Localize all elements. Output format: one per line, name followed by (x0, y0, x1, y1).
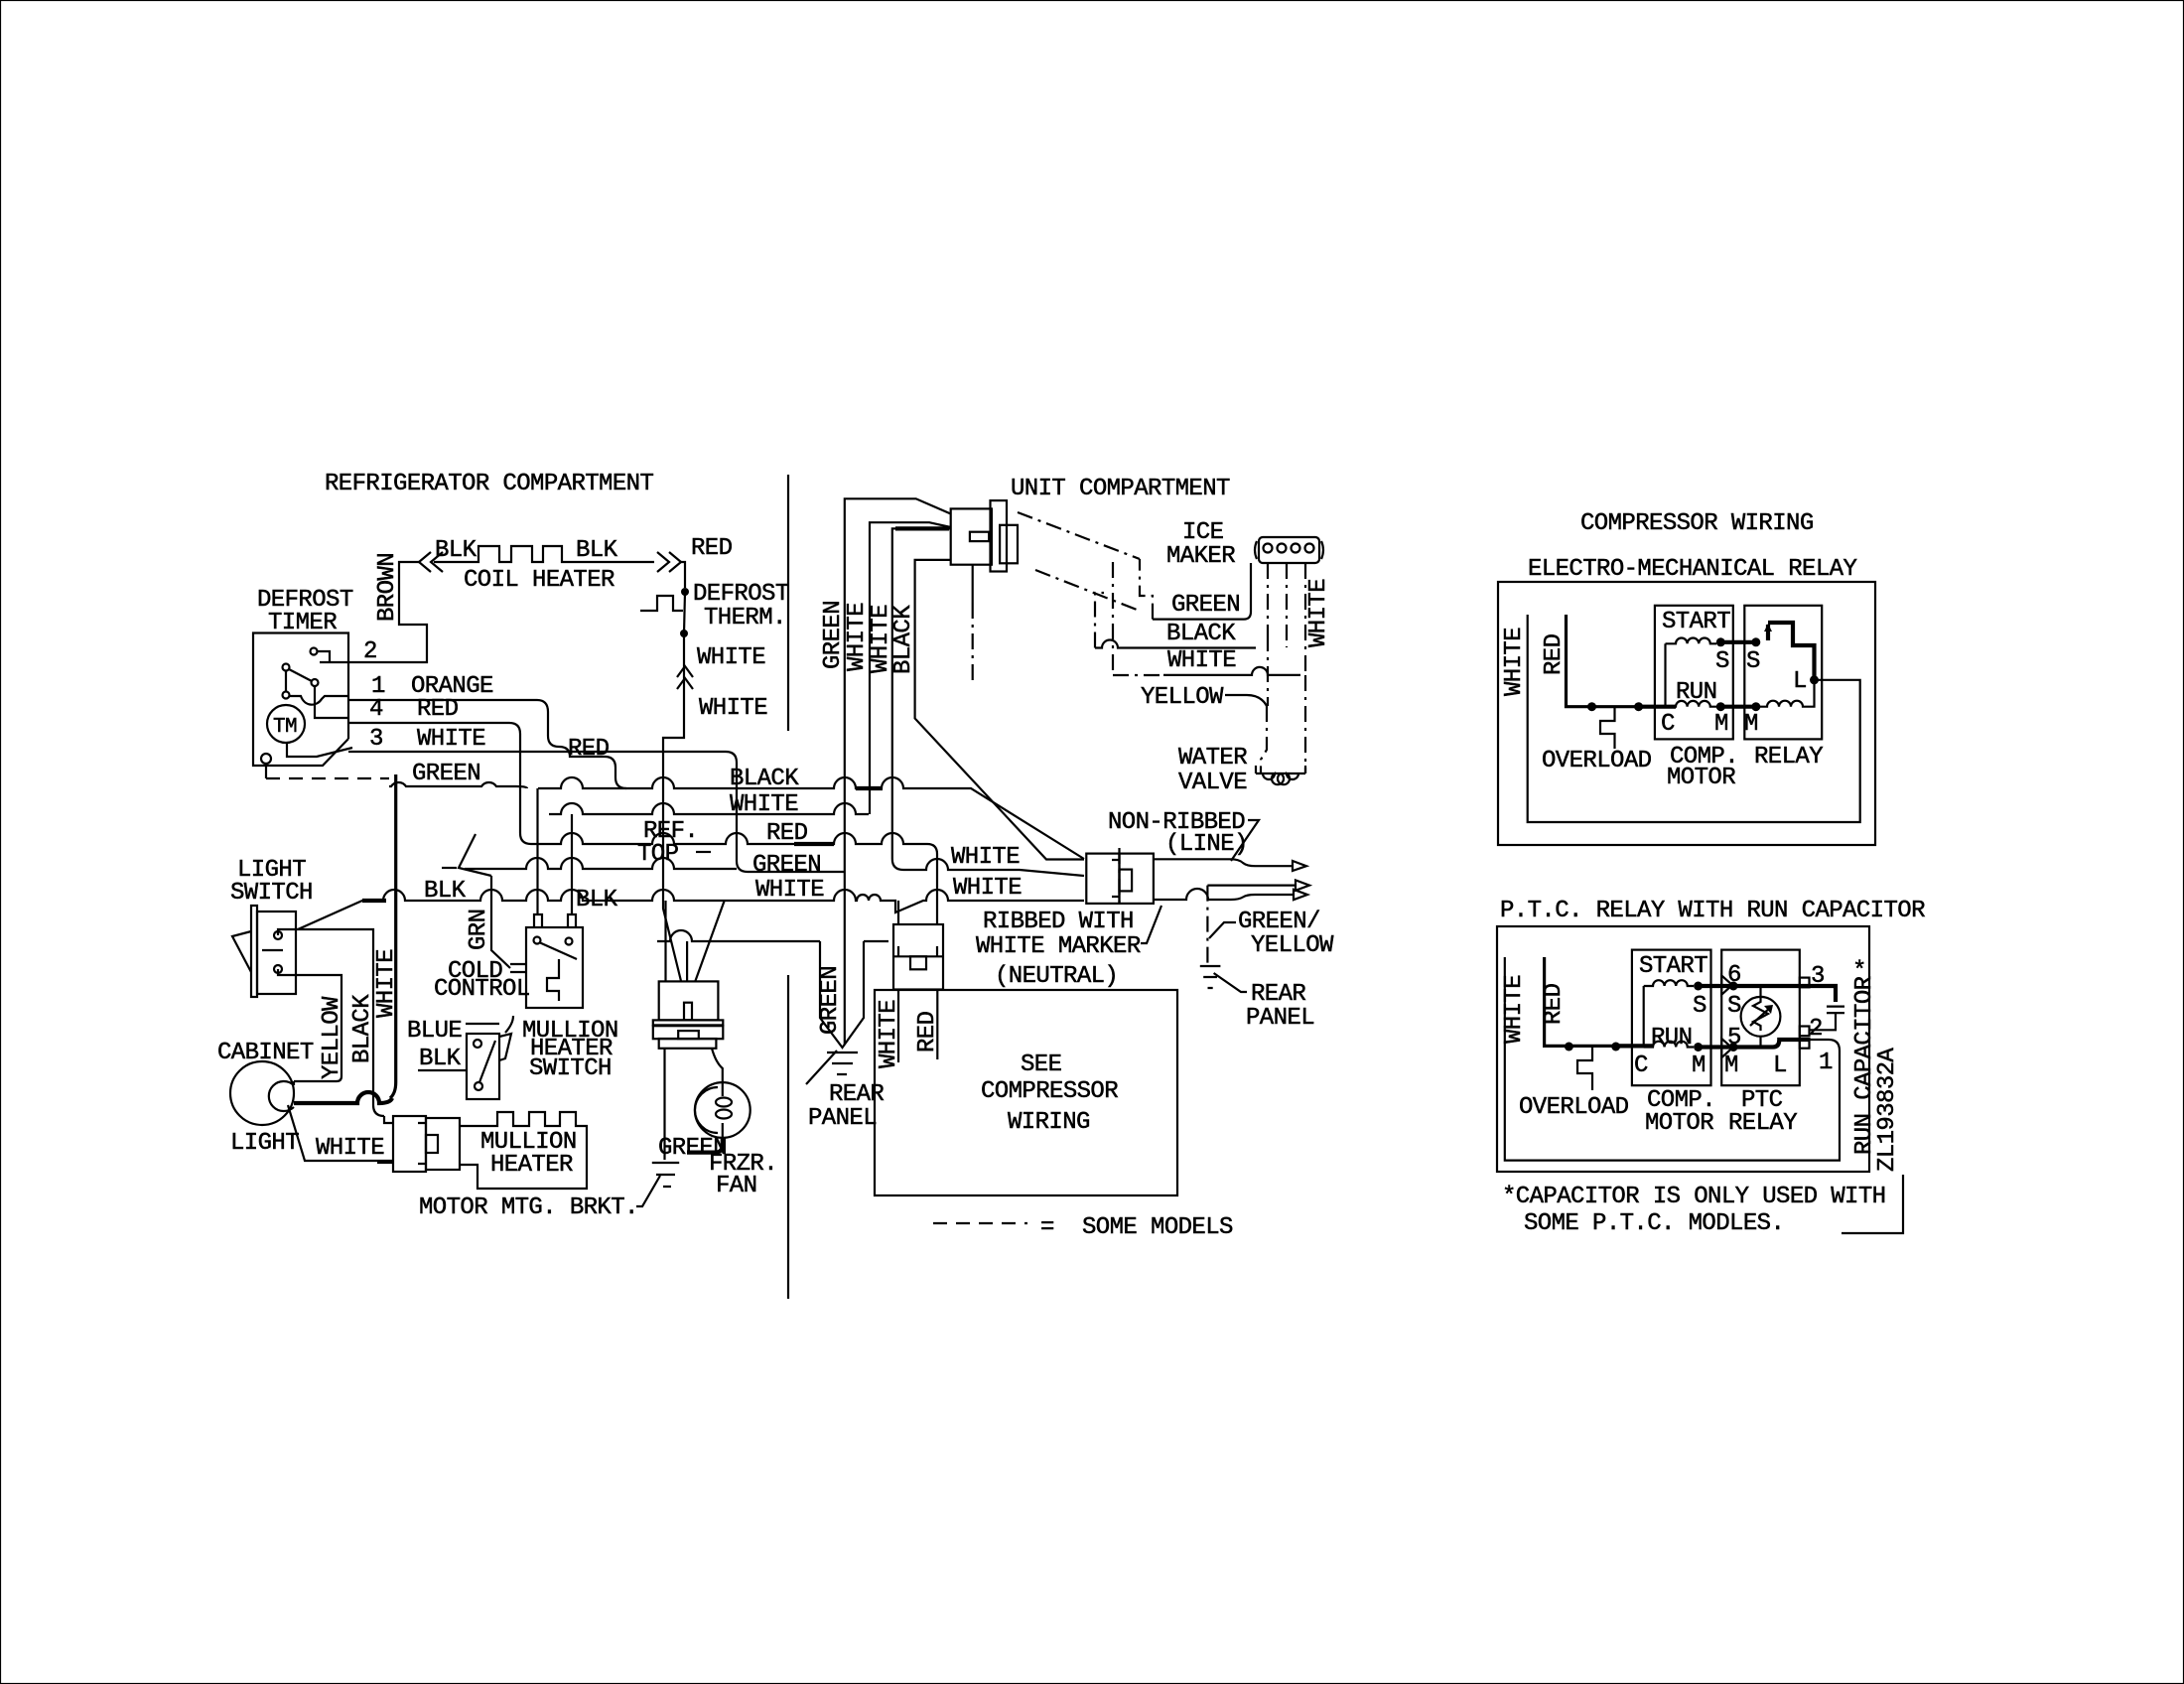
electro outer box (1498, 582, 1875, 845)
freezer fan plug flange (653, 1020, 724, 1025)
cold control box (526, 927, 583, 1008)
black wire to mullion connector (384, 1116, 393, 1123)
defrost therm step symbol (640, 596, 683, 611)
ptc outer box (1497, 926, 1869, 1172)
ptc start coil (1644, 980, 1694, 986)
svg-text:*CAPACITOR IS ONLY USED WITH: *CAPACITOR IS ONLY USED WITH (1502, 1184, 1885, 1210)
cold control terminals (534, 937, 541, 944)
see compressor wiring box (875, 990, 1177, 1195)
svg-text:WHITE: WHITE (699, 695, 767, 722)
electro motor M dot (1716, 702, 1725, 711)
svg-text:ELECTRO-MECHANICAL RELAY: ELECTRO-MECHANICAL RELAY (1528, 556, 1856, 583)
svg-text:BLACK: BLACK (1166, 621, 1236, 647)
non-ribbed pointer (1231, 820, 1259, 861)
svg-text:COMPRESSOR: COMPRESSOR (981, 1078, 1118, 1105)
ptc terminal tabs (1800, 978, 1810, 988)
ptc S triangle (1721, 975, 1732, 994)
svg-text:WHITE: WHITE (417, 726, 485, 753)
blk wire lower (418, 1069, 468, 1071)
svg-text:WHITE: WHITE (1305, 579, 1332, 647)
electro relay coil (1756, 680, 1815, 707)
mullion heater switch flag (499, 1034, 511, 1060)
freezer fan bulb bottom wire (687, 1138, 723, 1153)
ptc motor M dot (1694, 1043, 1703, 1052)
freezer fan bulb (695, 1082, 751, 1138)
defrost therm blade (684, 592, 685, 633)
light switch terminals (274, 931, 282, 939)
svg-text:S: S (1715, 648, 1729, 675)
svg-text:YELLOW: YELLOW (319, 996, 345, 1079)
electro comp motor box (1655, 606, 1733, 740)
svg-text:M: M (1724, 1052, 1738, 1079)
svg-text:BLACK: BLACK (890, 605, 917, 674)
motor mtg brkt pointer (636, 1176, 660, 1206)
svg-text:SWITCH: SWITCH (529, 1055, 612, 1082)
svg-text:YELLOW: YELLOW (1251, 932, 1334, 959)
svg-text:S: S (1693, 993, 1706, 1020)
line cord output mid (1207, 884, 1296, 886)
defrost therm contact dot top (681, 588, 689, 596)
cold control terminal stubs (534, 914, 576, 927)
svg-text:WATER: WATER (1178, 745, 1247, 772)
svg-text:SOME MODELS: SOME MODELS (1082, 1214, 1233, 1241)
arrow 1 (1293, 861, 1306, 871)
timer motor TM (267, 705, 305, 743)
arrow 2 (1296, 880, 1309, 890)
cabinet light filament (269, 1081, 294, 1111)
svg-text:MAKER: MAKER (1166, 543, 1235, 570)
electro overload zigzag (1600, 707, 1615, 749)
ptc S link (1699, 984, 1734, 988)
black bus thick segment (856, 786, 883, 790)
svg-text:START: START (1662, 609, 1730, 635)
white wire stub to compressor connector (897, 901, 899, 924)
freezer fan bulb filament (722, 1082, 724, 1138)
svg-text:YELLOW: YELLOW (1141, 684, 1224, 711)
svg-text:RED: RED (568, 736, 610, 763)
svg-text:M: M (1714, 711, 1728, 738)
svg-text:MOTOR: MOTOR (1645, 1110, 1713, 1137)
svg-text:RELAY: RELAY (1728, 1110, 1797, 1137)
note bracket (1842, 1175, 1903, 1233)
light switch wedge (232, 931, 251, 972)
svg-text:S: S (1727, 993, 1741, 1020)
line cord connector (1086, 854, 1119, 904)
fan ground (652, 1153, 679, 1187)
electro motor internal vertical (1664, 643, 1666, 706)
svg-text:GREEN: GREEN (817, 966, 844, 1035)
svg-text:PANEL: PANEL (1246, 1005, 1314, 1032)
svg-text:RED: RED (691, 535, 733, 562)
svg-text:MOTOR: MOTOR (1667, 765, 1735, 791)
ptc disc zigzag (1753, 997, 1768, 1031)
ptc motor S dot (1694, 982, 1703, 991)
freezer fan left wire down (663, 1049, 665, 1153)
svg-text:REFRIGERATOR COMPARTMENT: REFRIGERATOR COMPARTMENT (325, 471, 653, 497)
svg-text:1: 1 (1819, 1050, 1833, 1076)
white riser (870, 522, 951, 814)
mullion heater element box (460, 1112, 587, 1189)
compressor lead red (936, 990, 938, 1060)
svg-text:BLK: BLK (576, 537, 618, 564)
green yellow wire down (1206, 886, 1208, 964)
rear panel pointer center (806, 1051, 837, 1084)
rear panel ground center (827, 1052, 858, 1074)
timer dashed some-models wire (266, 777, 389, 779)
ptc red wire (1545, 957, 1615, 1046)
electro relay box (1744, 606, 1822, 740)
electro S link (1720, 640, 1756, 644)
svg-text:WHITE: WHITE (316, 1135, 384, 1162)
svg-text:S: S (1746, 648, 1760, 675)
defrost timer box (253, 633, 348, 767)
wire brown vertical (320, 562, 427, 662)
electro relay armature (1768, 623, 1815, 680)
svg-text:RED: RED (417, 696, 459, 723)
light switch body (257, 912, 296, 994)
svg-text:WHITE MARKER: WHITE MARKER (976, 933, 1141, 960)
ptc cap wire (1733, 986, 1836, 1002)
svg-text:M: M (1744, 711, 1758, 738)
svg-text:GREEN/: GREEN/ (1238, 909, 1320, 935)
mullion heater switch blade (479, 1041, 495, 1082)
ptc disc (1741, 997, 1781, 1037)
svg-text:ZL193832A: ZL193832A (1874, 1048, 1901, 1172)
arrow chevrons left on heater wire (419, 552, 443, 572)
svg-text:BROWN: BROWN (374, 553, 401, 622)
electro start coil (1666, 637, 1717, 643)
svg-text:GREEN: GREEN (752, 852, 821, 879)
electro run coil (1666, 701, 1717, 707)
cold control pointer tab (510, 964, 526, 972)
freezer fan wires top verticals (666, 901, 688, 981)
electro relay S dot (1751, 637, 1760, 646)
svg-text:RUN: RUN (1651, 1025, 1692, 1052)
svg-text:C: C (1634, 1052, 1648, 1079)
svg-text:HEATER: HEATER (490, 1152, 573, 1179)
line cord output bottom (1154, 889, 1294, 900)
mullion heater switch box (467, 1034, 499, 1099)
svg-text:BLK: BLK (435, 537, 478, 564)
ice maker connector (1255, 541, 1257, 559)
svg-text:GREEN: GREEN (1171, 592, 1240, 619)
svg-text:BLACK: BLACK (349, 994, 376, 1063)
light switch yellow wire (278, 969, 341, 1081)
freezer fan wires top diagonals (695, 901, 724, 981)
cold control zigzag (547, 959, 559, 1001)
grn wire to cold control (491, 876, 510, 968)
rear panel pointer right (1214, 973, 1247, 992)
ptc run coil (1644, 1042, 1694, 1048)
electro relay L dot (1810, 675, 1819, 684)
line cord output top (1154, 859, 1293, 866)
electro red wire (1567, 615, 1639, 707)
svg-text:RED: RED (1541, 633, 1568, 675)
mullion heater switch terminals (474, 1040, 481, 1048)
red bus thick segment (794, 842, 834, 846)
svg-text:UNIT COMPARTMENT: UNIT COMPARTMENT (1011, 476, 1230, 502)
arrow chevrons right on heater wire (657, 552, 681, 572)
svg-text:OVERLOAD: OVERLOAD (1519, 1094, 1629, 1121)
white wire corner from riser to connector (892, 528, 1084, 876)
electro node dot1 (1587, 702, 1596, 711)
electro motor S dot (1716, 637, 1725, 646)
white wire thick from light (294, 1092, 392, 1103)
svg-text:OVERLOAD: OVERLOAD (1542, 748, 1652, 774)
ptc relay M dot (1729, 1043, 1738, 1052)
freezer fan plug lower block (659, 1039, 717, 1049)
coil heater element (434, 546, 654, 562)
ptc relay box (1721, 950, 1800, 1086)
ptc M triangle (1721, 1039, 1732, 1057)
svg-text:WIRING: WIRING (1008, 1109, 1090, 1136)
light switch black wire (278, 929, 384, 1116)
svg-text:(NEUTRAL): (NEUTRAL) (995, 963, 1118, 990)
ptc relay S dot (1729, 982, 1738, 991)
svg-text:SWITCH: SWITCH (230, 880, 313, 907)
water valve coil (1256, 766, 1305, 784)
svg-text:GRN: GRN (466, 910, 492, 950)
ptc L wire (1733, 1040, 1809, 1048)
svg-text:TM: TM (273, 716, 297, 739)
svg-text:GREEN: GREEN (820, 601, 847, 669)
svg-text:WHITE: WHITE (876, 1000, 902, 1068)
electro node dot2 (1634, 702, 1643, 711)
svg-text:START: START (1639, 953, 1707, 980)
svg-text:LIGHT: LIGHT (230, 1130, 299, 1157)
blue wire (466, 1016, 513, 1033)
electro relay M dot (1751, 702, 1760, 711)
green riser (845, 498, 951, 1045)
timer contact terminals (283, 664, 290, 671)
svg-text:BLK: BLK (419, 1046, 462, 1072)
ptc motor internal vertical (1643, 986, 1645, 1048)
green wire over white riser (389, 782, 527, 788)
svg-text:WHITE: WHITE (951, 844, 1020, 871)
green banner arrow (820, 941, 864, 1048)
svg-text:WHITE: WHITE (1501, 628, 1528, 696)
svg-text:GREEN: GREEN (412, 761, 480, 787)
blk wire from ref top switch (465, 858, 737, 869)
green banner top line (657, 930, 888, 941)
ice maker black dashed vertical (1286, 563, 1288, 647)
svg-text:FAN: FAN (716, 1173, 756, 1199)
ref top pointer dash (696, 851, 711, 853)
ice maker dashed diagonal 2 (1035, 570, 1141, 611)
ice maker white dashed riser (1113, 562, 1163, 675)
svg-text:SOME P.T.C. MODLES.: SOME P.T.C. MODLES. (1524, 1210, 1784, 1237)
ptc node dot2 (1611, 1043, 1620, 1052)
svg-text:BLUE: BLUE (407, 1018, 462, 1045)
electro white wire (1528, 615, 1860, 822)
svg-text:WHITE: WHITE (844, 603, 871, 671)
cold control wire right (571, 814, 573, 914)
ice maker dashed diagonal 1 (1018, 512, 1140, 559)
svg-text:MOTOR MTG. BRKT.: MOTOR MTG. BRKT. (419, 1194, 638, 1221)
black riser with diagonal to line connector (915, 560, 1084, 860)
compartment separator lower (787, 975, 789, 1299)
white riser left column (390, 774, 396, 1098)
mullion heater connector (393, 1116, 426, 1172)
svg-text:M: M (1692, 1052, 1706, 1079)
compartment separator upper (787, 475, 789, 731)
svg-text:RED: RED (914, 1011, 941, 1052)
ptc disc arrow (1750, 1007, 1771, 1026)
yellow dashed vertical (1267, 563, 1269, 706)
svg-text:L: L (1793, 668, 1807, 695)
ice maker white vertical to valve (1304, 563, 1306, 773)
svg-text:ICE: ICE (1182, 519, 1224, 546)
arrow 3 (1294, 890, 1307, 900)
freezer fan plug prong (684, 1003, 692, 1021)
ref top switch blade (459, 834, 491, 876)
timer bottom terminal (261, 754, 271, 764)
ptc white wire (1505, 957, 1840, 1161)
rear panel ground right (1200, 966, 1221, 988)
svg-text:COIL HEATER: COIL HEATER (464, 567, 614, 594)
yellow wire to valve (1261, 706, 1267, 773)
light switch inner tick (262, 949, 283, 951)
compressor lead white (897, 990, 899, 1063)
svg-text:DEFROST: DEFROST (693, 581, 789, 608)
wire red from heater to defrost therm (681, 562, 685, 588)
up chevrons on white wire (677, 666, 693, 689)
svg-text:WHITE: WHITE (697, 644, 765, 671)
ptc M link (1699, 1045, 1734, 1049)
svg-text:4: 4 (369, 696, 383, 723)
white wire from light (288, 1105, 393, 1161)
plug lead down (972, 565, 974, 603)
green yellow pointer (1209, 922, 1236, 938)
svg-text:C: C (1661, 711, 1675, 738)
svg-text:WHITE: WHITE (953, 875, 1022, 902)
svg-text:REAR: REAR (1251, 981, 1305, 1008)
cold control blade (539, 942, 577, 959)
svg-text:WHITE: WHITE (1167, 647, 1236, 674)
white wire diagonal to fan plug (663, 902, 681, 981)
cabinet light bulb (230, 1061, 294, 1125)
compressor plug receptacle (951, 508, 992, 564)
svg-text:BLK: BLK (576, 887, 618, 913)
svg-text:TOP: TOP (637, 841, 679, 868)
ref top switch dash-dot (442, 867, 457, 869)
white wire into mullion connector (377, 1162, 393, 1164)
svg-text:PANEL: PANEL (808, 1105, 877, 1132)
svg-text:RELAY: RELAY (1754, 744, 1823, 771)
svg-text:P.T.C. RELAY WITH RUN CAPACITO: P.T.C. RELAY WITH RUN CAPACITOR (1500, 898, 1925, 924)
svg-text:3: 3 (369, 726, 383, 753)
svg-text:2: 2 (363, 638, 377, 665)
svg-text:=: = (1040, 1214, 1054, 1241)
electro M link (1720, 705, 1756, 709)
some models legend (933, 1222, 1027, 1224)
run capacitor symbol (1810, 1007, 1845, 1031)
light switch plate (251, 906, 257, 997)
defrost therm contact dot bottom (680, 630, 688, 637)
svg-text:CONTROL: CONTROL (434, 976, 530, 1003)
ptc overload zigzag (1577, 1048, 1592, 1091)
ribbed pointer (1141, 906, 1161, 943)
yellow wire pointer (1225, 695, 1267, 706)
freezer fan right wire to bulb (712, 1049, 723, 1082)
cold control wire left (536, 788, 538, 914)
svg-text:THERM.: THERM. (704, 605, 786, 631)
svg-text:L: L (1773, 1052, 1787, 1079)
timer terminal 2 (311, 648, 318, 655)
white wire from therm down (663, 633, 684, 902)
compressor leads connector (893, 924, 943, 990)
svg-text:COMPRESSOR WIRING: COMPRESSOR WIRING (1580, 510, 1814, 537)
freezer fan plug body (659, 981, 719, 1020)
ptc node dot1 (1565, 1043, 1573, 1052)
ptc comp motor box (1632, 950, 1711, 1086)
svg-text:RIBBED WITH: RIBBED WITH (983, 909, 1134, 935)
svg-text:VALVE: VALVE (1178, 770, 1247, 796)
svg-text:SEE: SEE (1021, 1052, 1062, 1078)
